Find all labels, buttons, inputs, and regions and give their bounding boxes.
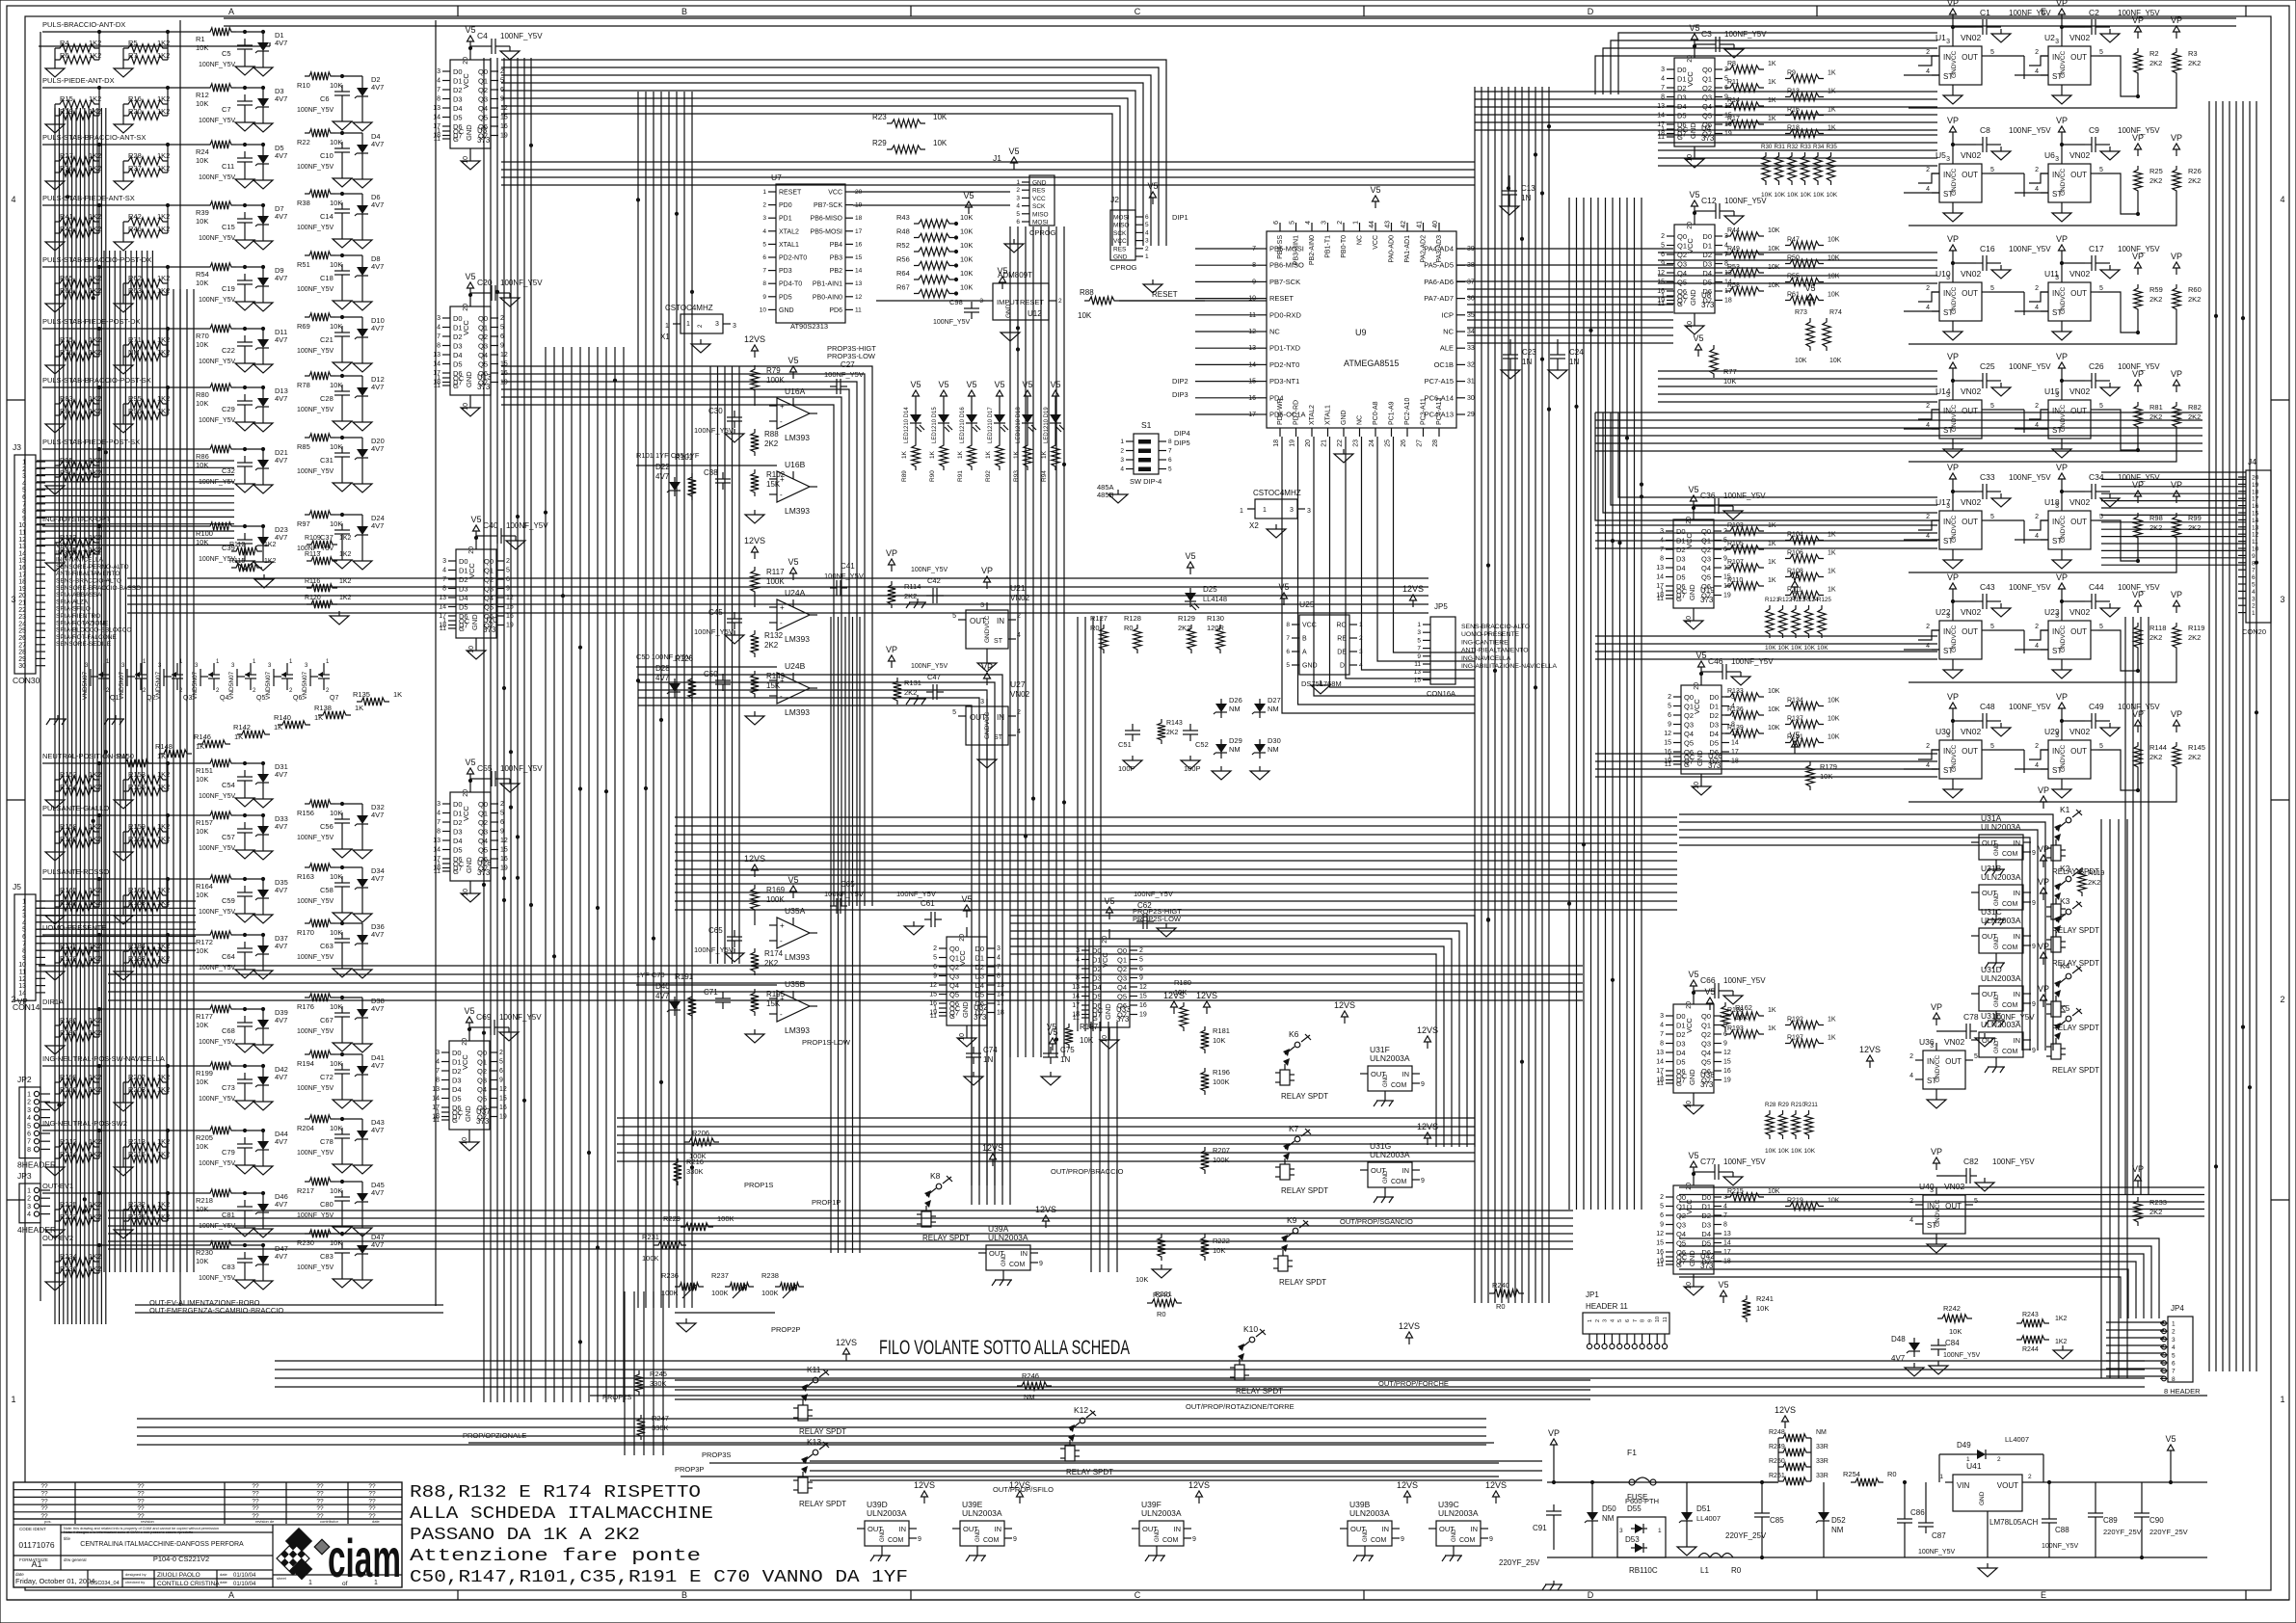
svg-text:R205: R205	[196, 1133, 213, 1142]
svg-text:B: B	[681, 7, 687, 16]
svg-text:J5: J5	[13, 882, 21, 891]
svg-text:PROP2P: PROP2P	[771, 1325, 800, 1334]
svg-text:Q3: Q3	[1701, 555, 1711, 564]
resistor R229 100K	[663, 1214, 734, 1231]
svg-text:18: 18	[1273, 439, 1280, 447]
svg-text:NM: NM	[1831, 1526, 1844, 1534]
svg-text:10K: 10K	[196, 775, 208, 784]
bridge D55/D53 RB110C	[1617, 1497, 1666, 1575]
svg-text:1: 1	[686, 321, 690, 328]
svg-text:PULS-PIEDE-ANT-DX: PULS-PIEDE-ANT-DX	[42, 76, 115, 85]
svg-text:GND: GND	[470, 614, 479, 630]
svg-text:10K: 10K	[960, 241, 973, 250]
svg-text:10K: 10K	[1768, 725, 1780, 732]
svg-text:VN02: VN02	[1961, 607, 1982, 617]
svg-text:MISO: MISO	[1113, 223, 1130, 229]
svg-text:100NF_Y5V: 100NF_Y5V	[2009, 9, 2051, 17]
svg-text:4V7: 4V7	[371, 1126, 384, 1134]
svg-text:PA2-AD2: PA2-AD2	[1421, 235, 1428, 263]
wire bus	[1595, 33, 1937, 94]
svg-text:CON20: CON20	[2242, 627, 2266, 636]
svg-text:10: 10	[463, 156, 469, 164]
svg-text:8: 8	[1168, 439, 1172, 445]
svg-text:VP: VP	[2132, 709, 2144, 719]
svg-text:10K: 10K	[1213, 1036, 1225, 1045]
svg-text:8: 8	[1660, 1041, 1664, 1048]
svg-text:VP: VP	[886, 548, 897, 558]
wire junctions	[57, 124, 2258, 1344]
svg-text:D3: D3	[453, 828, 463, 837]
svg-text:-: -	[780, 619, 783, 627]
svg-text:R167: R167	[60, 898, 77, 907]
svg-text:F1: F1	[1627, 1448, 1637, 1457]
svg-text:1: 1	[437, 128, 441, 135]
svg-text:1K: 1K	[1828, 1017, 1836, 1024]
svg-text:1: 1	[2172, 1321, 2176, 1328]
wire bus	[675, 817, 1677, 869]
svg-text:4V7: 4V7	[371, 1061, 384, 1070]
svg-text:ING-ABILITAZIONE-NAVICELLA: ING-ABILITAZIONE-NAVICELLA	[1461, 663, 1558, 670]
svg-text:3: 3	[1619, 1528, 1623, 1534]
svg-text:VN02: VN02	[2069, 269, 2091, 279]
svg-text:1K: 1K	[355, 704, 363, 712]
svg-text:20: 20	[959, 934, 966, 942]
svg-text:Q0: Q0	[484, 557, 494, 566]
svg-text:11: 11	[433, 1117, 440, 1124]
svg-text:100NF_Y5V: 100NF_Y5V	[824, 890, 864, 898]
svg-text:R225: R225	[60, 1200, 77, 1209]
latch U8 74x373	[1657, 190, 1767, 334]
svg-text:SPIA-SFILO: SPIA-SFILO	[56, 606, 91, 613]
svg-text:10: 10	[959, 1033, 966, 1041]
svg-text:1: 1	[2280, 1395, 2284, 1404]
svg-text:100NF_Y5V: 100NF_Y5V	[199, 845, 235, 852]
svg-text:2: 2	[1926, 167, 1930, 173]
svg-text:2: 2	[22, 466, 26, 473]
svg-text:PB0-AIN0: PB0-AIN0	[813, 294, 842, 301]
svg-text:4: 4	[2035, 533, 2039, 540]
svg-text:R115: R115	[229, 558, 245, 565]
svg-text:K7: K7	[1289, 1124, 1299, 1133]
svg-text:24: 24	[1369, 439, 1375, 447]
svg-text:RELAY SPDT: RELAY SPDT	[2052, 1066, 2099, 1075]
svg-text:10: 10	[462, 1137, 468, 1145]
svg-text:IN: IN	[2014, 889, 2021, 897]
svg-text:R135: R135	[353, 690, 370, 699]
relay K5 SPDT	[2038, 984, 2099, 1075]
wire	[42, 1182, 205, 1193]
svg-text:R93: R93	[1013, 470, 1020, 482]
svg-text:20: 20	[462, 1038, 468, 1046]
svg-text:3: 3	[27, 1107, 31, 1114]
svg-text:VP: VP	[1548, 1428, 1560, 1438]
svg-text:2: 2	[1926, 743, 1930, 750]
svg-text:RESET: RESET	[1152, 290, 1178, 299]
svg-text:V5: V5	[1688, 970, 1698, 979]
svg-text:Q4: Q4	[1676, 1230, 1686, 1238]
svg-text:VN02: VN02	[1961, 150, 1982, 160]
svg-text:VP: VP	[2171, 369, 2182, 379]
svg-text:12VS: 12VS	[1397, 1480, 1418, 1490]
svg-text:C27: C27	[841, 360, 855, 369]
ground	[1212, 766, 1269, 780]
svg-text:2K2: 2K2	[1166, 730, 1179, 736]
svg-text:ULN2003A: ULN2003A	[1370, 1150, 1410, 1159]
svg-text:R28: R28	[1765, 1102, 1776, 1108]
resistors R248-R251	[1769, 1405, 1829, 1485]
svg-text:K9: K9	[1287, 1215, 1297, 1225]
svg-text:120R: 120R	[1207, 624, 1225, 632]
svg-text:SPIA-RIENTRO: SPIA-RIENTRO	[56, 613, 100, 620]
svg-text:100NF_Y5V: 100NF_Y5V	[500, 279, 543, 287]
svg-text:373: 373	[974, 1013, 987, 1022]
svg-text:DIR1A: DIR1A	[42, 998, 64, 1006]
svg-text:4V7: 4V7	[275, 151, 287, 160]
svg-text:9: 9	[1723, 1041, 1727, 1048]
svg-text:10K: 10K	[330, 381, 342, 389]
inductor L1 R0	[1547, 1554, 2207, 1576]
svg-text:C8: C8	[1980, 125, 1990, 135]
svg-text:OUT: OUT	[1962, 53, 1978, 62]
svg-text:NM: NM	[1229, 745, 1241, 754]
svg-text:12VS: 12VS	[914, 1480, 935, 1490]
svg-text:R102: R102	[766, 470, 786, 479]
svg-text:10K: 10K	[330, 1124, 342, 1132]
svg-text:R60: R60	[2188, 285, 2202, 294]
svg-text:8: 8	[1286, 622, 1290, 628]
svg-text:12: 12	[499, 1086, 507, 1093]
svg-text:R12: R12	[196, 91, 209, 99]
svg-text:100NF_Y5V: 100NF_Y5V	[199, 62, 235, 68]
svg-text:12: 12	[18, 976, 26, 983]
svg-text:4: 4	[11, 195, 15, 204]
svg-text:220YF_25V: 220YF_25V	[1499, 1558, 1540, 1567]
svg-text:17: 17	[1723, 1249, 1731, 1256]
driver U31F ULN2003A	[1360, 1025, 1438, 1106]
wire bus	[617, 1118, 1475, 1161]
svg-text:IN: IN	[899, 1525, 907, 1533]
driver U39B ULN2003A	[1340, 1480, 1418, 1561]
svg-text:12VS: 12VS	[1188, 1480, 1210, 1490]
svg-text:PB1-T1: PB1-T1	[1325, 235, 1332, 258]
svg-text:7: 7	[22, 941, 26, 947]
svg-text:GND: GND	[1688, 584, 1696, 600]
svg-text:VP: VP	[2171, 133, 2182, 143]
svg-text:D: D	[1588, 1590, 1594, 1600]
svg-text:12VS: 12VS	[744, 536, 765, 545]
svg-text:C3: C3	[1701, 29, 1712, 39]
svg-text:VP: VP	[1947, 692, 1959, 702]
wire bus	[1010, 226, 1064, 1057]
relay K11 SPDT	[793, 1365, 846, 1436]
svg-text:2: 2	[27, 1196, 31, 1203]
svg-text:4V7: 4V7	[275, 39, 287, 47]
svg-text:U9: U9	[1355, 328, 1367, 337]
svg-text:ULN2003A: ULN2003A	[1438, 1508, 1479, 1518]
svg-text:SPIA-ABBASSA: SPIA-ABBASSA	[56, 592, 102, 599]
svg-text:10K: 10K	[196, 1142, 208, 1151]
svg-text:R29: R29	[872, 139, 887, 147]
svg-text:10K: 10K	[1723, 377, 1736, 386]
wire bus	[1595, 636, 1937, 659]
wire	[42, 515, 205, 526]
svg-text:D4: D4	[1701, 1230, 1711, 1238]
svg-text:Q4: Q4	[478, 837, 488, 845]
svg-text:R100: R100	[196, 529, 213, 538]
svg-text:20: 20	[1694, 682, 1700, 690]
svg-text:Q7: Q7	[330, 695, 338, 702]
svg-text:G: G	[1677, 133, 1683, 142]
svg-text:2: 2	[2252, 603, 2256, 610]
svg-text:C77: C77	[1700, 1157, 1716, 1166]
pull-up resistors R165/R167	[45, 877, 170, 924]
svg-text:10K: 10K	[1775, 192, 1786, 199]
svg-text:UOMO-PRESENTE: UOMO-PRESENTE	[1461, 631, 1520, 638]
svg-text:15: 15	[1723, 1059, 1731, 1066]
svg-text:JP5: JP5	[1434, 602, 1448, 611]
svg-text:C63: C63	[320, 942, 334, 950]
svg-text:R20: R20	[128, 107, 142, 116]
svg-text:11: 11	[1414, 661, 1421, 668]
svg-text:ST: ST	[2052, 72, 2062, 81]
svg-text:1K: 1K	[1041, 450, 1048, 459]
svg-text:4: 4	[2035, 643, 2039, 650]
svg-text:GND: GND	[1994, 892, 2000, 906]
svg-text:100NF_Y5V: 100NF_Y5V	[297, 407, 334, 413]
svg-text:100K: 100K	[761, 1289, 779, 1297]
svg-text:IN: IN	[997, 617, 1004, 625]
svg-text:X2: X2	[1249, 521, 1259, 530]
svg-text:1: 1	[1417, 622, 1421, 628]
svg-text:R248: R248	[1769, 1429, 1785, 1436]
svg-text:ULN2003A: ULN2003A	[867, 1508, 907, 1518]
svg-text:SENSORE-BRACCIO-BASSO: SENSORE-BRACCIO-BASSO	[56, 585, 141, 592]
svg-text:VP: VP	[1947, 116, 1959, 125]
svg-text:Q5: Q5	[1701, 1058, 1711, 1067]
svg-text:LED1210 D16: LED1210 D16	[960, 407, 966, 443]
svg-text:PD2-NT0: PD2-NT0	[779, 255, 807, 262]
wire bus	[2101, 819, 2127, 1378]
svg-text:Q4: Q4	[1677, 269, 1687, 278]
svg-text:18: 18	[997, 1010, 1004, 1017]
svg-text:VP: VP	[2056, 0, 2068, 8]
svg-text:VP: VP	[2056, 234, 2068, 244]
wire bus	[108, 966, 1583, 1000]
svg-text:4V7: 4V7	[371, 140, 384, 148]
capacitor C13 1N	[1500, 175, 1535, 215]
svg-text:9: 9	[22, 516, 26, 522]
resistor R119 2K2	[2078, 867, 2105, 896]
svg-text:C18: C18	[320, 274, 334, 282]
diode D50 NM	[1585, 1482, 1616, 1557]
svg-text:R142: R142	[233, 723, 251, 732]
svg-text:1K: 1K	[1828, 1035, 1836, 1042]
svg-text:V5: V5	[1050, 380, 1060, 389]
svg-text:C10: C10	[320, 151, 334, 160]
svg-text:PA6-AD6: PA6-AD6	[1424, 278, 1454, 286]
svg-text:IN: IN	[2052, 53, 2060, 62]
svg-text:R89: R89	[901, 470, 908, 482]
svg-text:R29: R29	[1778, 1102, 1790, 1108]
svg-text:Q2: Q2	[478, 333, 488, 341]
svg-text:DIP2: DIP2	[1172, 377, 1188, 386]
svg-text:7: 7	[437, 333, 441, 340]
diode D29 NM	[1214, 736, 1242, 758]
svg-text:V5: V5	[1185, 551, 1195, 561]
svg-text:100NF_Y5V: 100NF_Y5V	[2009, 473, 2051, 482]
svg-text:2K2: 2K2	[2149, 295, 2162, 304]
resistors R208-R211 10K	[1765, 1102, 1818, 1155]
svg-text:RESET: RESET	[779, 190, 802, 197]
svg-text:VCC: VCC	[467, 563, 476, 578]
svg-text:12: 12	[2252, 532, 2259, 539]
svg-text:3: 3	[2252, 596, 2256, 602]
svg-text:LED1210 D17: LED1210 D17	[988, 407, 994, 443]
svg-text:U14: U14	[1936, 386, 1951, 396]
svg-text:4: 4	[22, 480, 26, 487]
svg-text:5: 5	[952, 709, 956, 716]
svg-text:C11: C11	[222, 162, 234, 171]
RC filter R199/C73 zener D42	[196, 1062, 288, 1110]
svg-text:ST: ST	[2052, 308, 2062, 317]
svg-text:10K: 10K	[196, 99, 208, 108]
svg-text:GND: GND	[880, 1529, 886, 1542]
resistors R73/R74 10K	[1795, 283, 1842, 364]
svg-text:U26: U26	[1708, 752, 1722, 760]
relay K3 SPDT	[2038, 877, 2099, 968]
svg-text:Q0: Q0	[1702, 66, 1712, 74]
svg-text:R227: R227	[60, 1212, 77, 1221]
svg-text:2K2: 2K2	[2149, 523, 2162, 532]
driver U31E ULN2003A	[1971, 1011, 2036, 1073]
svg-text:20: 20	[463, 304, 469, 311]
svg-text:D30: D30	[1268, 736, 1281, 745]
resistor R241 10K	[1718, 1280, 1773, 1322]
svg-text:C68: C68	[222, 1026, 235, 1035]
svg-text:R34: R34	[1813, 144, 1825, 150]
svg-text:9: 9	[1401, 1536, 1404, 1543]
svg-text:10K: 10K	[1828, 237, 1840, 244]
svg-text:R73: R73	[1795, 309, 1807, 316]
svg-text:Q1: Q1	[1701, 1022, 1711, 1030]
svg-text:2: 2	[2035, 743, 2039, 750]
svg-text:VP: VP	[2038, 785, 2049, 795]
connector J5 CON14	[13, 882, 45, 1012]
svg-text:15: 15	[499, 1096, 507, 1103]
svg-text:IN: IN	[2052, 171, 2060, 179]
svg-text:10K: 10K	[960, 269, 973, 278]
svg-text:100NF_Y5V: 100NF_Y5V	[297, 1028, 334, 1035]
svg-text:3: 3	[1417, 629, 1421, 636]
svg-text:JP2: JP2	[17, 1075, 32, 1084]
drivers U5/U6 VN02	[1926, 116, 2160, 222]
svg-text:PROP3P: PROP3P	[675, 1465, 704, 1474]
svg-text:SENSORE-SEDILE: SENSORE-SEDILE	[56, 641, 112, 648]
svg-text:12VS: 12VS	[1417, 1025, 1438, 1035]
svg-text:ST: ST	[1943, 647, 1953, 655]
svg-text:VP: VP	[981, 662, 993, 672]
wire V5 rail	[2030, 1434, 2207, 1484]
svg-text:U15: U15	[2044, 386, 2060, 396]
svg-text:R110: R110	[1727, 577, 1743, 584]
svg-text:Q1: Q1	[478, 77, 488, 86]
svg-text:23: 23	[18, 614, 26, 621]
svg-text:100NF_Y5V: 100NF_Y5V	[896, 890, 936, 898]
svg-text:10K: 10K	[1765, 1148, 1776, 1155]
svg-text:V5: V5	[938, 380, 948, 389]
svg-text:26: 26	[1401, 439, 1407, 447]
svg-text:C86: C86	[1910, 1508, 1925, 1517]
svg-text:R211: R211	[1804, 1102, 1819, 1108]
svg-text:30: 30	[1467, 395, 1475, 402]
svg-text:LED1210 D14: LED1210 D14	[904, 407, 910, 443]
svg-text:R212: R212	[60, 1137, 77, 1146]
svg-text:4: 4	[2280, 195, 2284, 204]
svg-text:100NF_Y5V: 100NF_Y5V	[199, 1039, 235, 1046]
svg-text:PB0-T0: PB0-T0	[1341, 235, 1348, 258]
svg-text:100NF_Y5V: 100NF_Y5V	[2009, 583, 2051, 592]
svg-text:7: 7	[1168, 448, 1172, 455]
svg-text:VP: VP	[1947, 572, 1959, 582]
transistors Q1-Q7 VND5N07	[82, 659, 338, 702]
svg-text:R3: R3	[2188, 49, 2198, 58]
svg-text:U11: U11	[2044, 269, 2059, 279]
svg-text:XTAL2: XTAL2	[1309, 405, 1316, 425]
trimmer R237 100K	[711, 1271, 754, 1298]
svg-text:6: 6	[1139, 966, 1143, 972]
svg-text:43: 43	[1385, 221, 1392, 228]
svg-text:VP: VP	[2056, 116, 2068, 125]
svg-text:U13: U13	[477, 373, 492, 382]
svg-text:COM: COM	[1391, 1082, 1407, 1089]
svg-text:2K2: 2K2	[2188, 295, 2201, 304]
svg-text:14: 14	[18, 990, 26, 997]
svg-text:R70: R70	[196, 332, 209, 340]
svg-text:A: A	[228, 1590, 234, 1600]
svg-text:R177: R177	[196, 1012, 213, 1021]
svg-text:E: E	[2041, 1590, 2046, 1600]
svg-text:Q3: Q3	[1684, 721, 1694, 730]
svg-text:15: 15	[1657, 279, 1665, 286]
svg-text:IN: IN	[1471, 1525, 1479, 1533]
latch U42 74x373	[1656, 1151, 1766, 1295]
svg-text:VN02: VN02	[1961, 33, 1982, 42]
RC filter R22/C10 zener D4	[297, 129, 384, 188]
svg-text:10: 10	[1687, 321, 1694, 329]
svg-text:20: 20	[463, 57, 469, 65]
pull-up resistors R152/R154	[45, 761, 170, 809]
RC filter R80/C29 zener D13	[196, 384, 288, 432]
svg-text:11: 11	[19, 970, 26, 976]
svg-text:8: 8	[437, 96, 441, 103]
svg-text:R43: R43	[896, 213, 910, 222]
svg-text:1: 1	[1660, 1073, 1664, 1079]
latch U33 74x373	[1072, 890, 1176, 1049]
svg-text:C56: C56	[320, 822, 334, 831]
svg-text:NC: NC	[1269, 328, 1280, 336]
svg-text:5: 5	[1016, 211, 1020, 218]
svg-text:27: 27	[18, 642, 26, 649]
svg-text:4: 4	[2172, 1344, 2176, 1351]
svg-text:100K: 100K	[642, 1254, 659, 1263]
wire bus	[484, 58, 531, 1402]
RC filter R176/C67 zener D38	[297, 994, 385, 1052]
svg-text:10K: 10K	[1791, 645, 1802, 652]
svg-text:12: 12	[855, 294, 863, 301]
resistor R245 330K	[635, 1370, 667, 1396]
svg-text:PD7-RD: PD7-RD	[1294, 400, 1300, 425]
driver U31A ULN2003A	[1971, 813, 2036, 875]
